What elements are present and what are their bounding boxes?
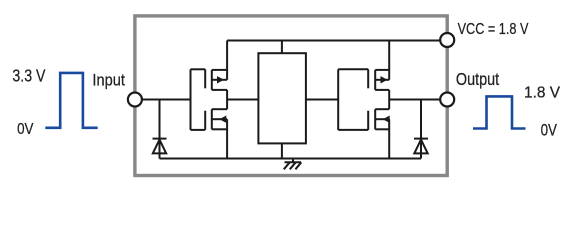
svg-text:0V: 0V — [17, 121, 34, 138]
svg-text:VCC = 1.8 V: VCC = 1.8 V — [458, 21, 529, 38]
svg-text:0V: 0V — [541, 122, 557, 140]
svg-text:3.3 V: 3.3 V — [12, 65, 46, 85]
svg-text:Input: Input — [92, 70, 125, 89]
svg-text:Output: Output — [456, 69, 499, 89]
svg-text:1.8 V: 1.8 V — [524, 85, 561, 102]
